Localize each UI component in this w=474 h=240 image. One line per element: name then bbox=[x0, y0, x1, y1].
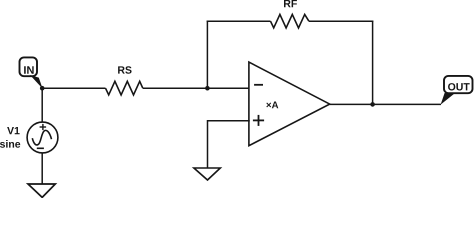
wire V1 to ground bbox=[41, 153, 43, 184]
sine wave bbox=[32, 130, 51, 145]
pin plus mark bbox=[253, 119, 264, 121]
wire RS to op-amp inverting input bbox=[143, 87, 250, 89]
ground op-amp plus input bbox=[194, 168, 220, 180]
node output junction bbox=[370, 102, 375, 107]
resistor RS bbox=[106, 66, 143, 95]
wire feedback vertical left bbox=[206, 21, 208, 89]
wire top left to RF bbox=[207, 20, 271, 22]
wire input node down to V1 bbox=[41, 88, 43, 122]
op-amp U1 bbox=[249, 62, 330, 146]
minus mark bbox=[37, 147, 44, 149]
gain label xA bbox=[266, 102, 278, 109]
source V1 sine bbox=[0, 122, 58, 153]
node feedback tap bbox=[205, 86, 210, 91]
wire feedback vertical right bbox=[372, 21, 374, 105]
label V1 bbox=[7, 127, 19, 134]
wire RF to right vertical bbox=[309, 20, 373, 22]
plus mark bbox=[40, 126, 47, 128]
resistor RF bbox=[271, 0, 309, 28]
terminal IN bbox=[20, 57, 43, 88]
node input junction bbox=[40, 86, 45, 91]
label sine bbox=[0, 140, 20, 148]
wire op-amp output bbox=[330, 103, 441, 105]
terminal OUT bbox=[441, 76, 473, 105]
pin minus mark bbox=[254, 84, 263, 86]
wire IN to RS bbox=[42, 87, 105, 89]
wire non-inverting input bbox=[208, 121, 250, 168]
ground V1 bbox=[28, 184, 55, 197]
